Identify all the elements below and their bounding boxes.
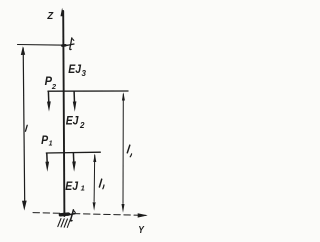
svg-text:Z: Z (46, 11, 54, 22)
svg-text:2: 2 (79, 121, 85, 130)
svg-text:3: 3 (82, 69, 87, 78)
svg-text:EJ: EJ (68, 62, 81, 76)
svg-text:EJ: EJ (66, 113, 79, 127)
svg-text:1: 1 (49, 141, 53, 148)
svg-text:2: 2 (51, 82, 57, 91)
svg-text:EJ: EJ (65, 179, 78, 193)
svg-text:1: 1 (81, 184, 85, 193)
